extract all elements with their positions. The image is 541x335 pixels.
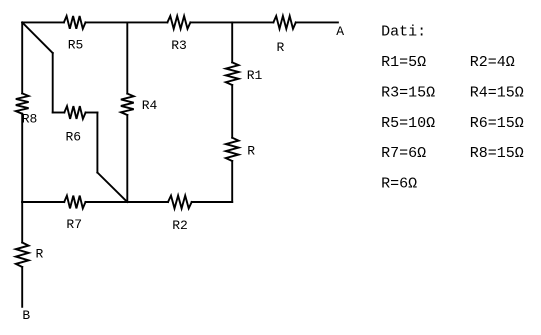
wire to node A: [296, 21, 338, 23]
wire R4 branch upper lead: [126, 22, 128, 93]
wire top-left segment A-node rail: [22, 21, 64, 23]
wire bottom rail left segment: [22, 201, 64, 203]
svg-text:R4: R4: [142, 98, 158, 113]
svg-text:R1=5Ω: R1=5Ω: [381, 54, 426, 71]
resistor R (top, between R3 and node A): [273, 16, 295, 29]
svg-text:R4=15Ω: R4=15Ω: [470, 84, 524, 101]
wire bottom rail middle segment: [86, 201, 169, 203]
resistor R (right middle, below R1): [226, 138, 239, 161]
svg-text:A: A: [336, 24, 344, 39]
wire left vertical below bottom rail: [21, 202, 23, 243]
svg-text:R8: R8: [22, 112, 38, 127]
wire R6 left lead: [53, 112, 65, 114]
svg-text:R: R: [36, 247, 44, 262]
svg-text:R5: R5: [68, 38, 84, 53]
svg-text:B: B: [22, 308, 30, 323]
wire vertical left of R6: [52, 53, 54, 113]
svg-text:Dati:: Dati:: [381, 24, 426, 41]
resistor R2: [168, 196, 192, 209]
svg-text:R6: R6: [66, 130, 82, 145]
svg-text:R8=15Ω: R8=15Ω: [470, 145, 524, 162]
svg-text:R: R: [277, 40, 285, 55]
wire top right segment: [190, 21, 273, 23]
svg-text:R1: R1: [247, 68, 263, 83]
wire between R1 and R: [231, 85, 233, 138]
wire R branch lower lead: [231, 161, 233, 202]
svg-text:R7: R7: [66, 217, 82, 232]
svg-text:R6=15Ω: R6=15Ω: [470, 115, 524, 132]
wire vertical right of R6: [96, 113, 98, 173]
svg-text:R7=6Ω: R7=6Ω: [381, 145, 426, 162]
resistor R5: [64, 16, 86, 29]
wire R6 right lead: [86, 112, 98, 114]
svg-text:R2: R2: [172, 218, 188, 233]
resistor R1: [226, 62, 239, 85]
resistor R7: [64, 196, 85, 209]
wire bottom rail right segment: [192, 201, 233, 203]
svg-text:R5=10Ω: R5=10Ω: [381, 115, 435, 132]
svg-text:R2=4Ω: R2=4Ω: [470, 54, 515, 71]
wire R1 branch upper lead: [231, 22, 233, 62]
resistor R4: [121, 94, 134, 115]
svg-text:R3: R3: [171, 38, 187, 53]
wire diagonal from top-left corner: [22, 22, 53, 53]
svg-text:R: R: [247, 143, 255, 158]
svg-text:R=6Ω: R=6Ω: [381, 176, 417, 193]
resistor R (bottom left, to node B): [16, 243, 29, 268]
wire to node B terminal: [21, 267, 23, 307]
wire diagonal to bottom rail junction: [97, 173, 127, 203]
resistor R8: [16, 93, 29, 113]
svg-text:R3=15Ω: R3=15Ω: [381, 84, 435, 101]
wire left vertical upper: [21, 22, 23, 93]
wire left vertical to bottom rail: [21, 114, 23, 202]
resistor R6: [64, 106, 85, 119]
wire R4 branch lower lead: [126, 115, 128, 202]
wire top middle segment: [86, 21, 168, 23]
resistor R3: [167, 16, 190, 29]
